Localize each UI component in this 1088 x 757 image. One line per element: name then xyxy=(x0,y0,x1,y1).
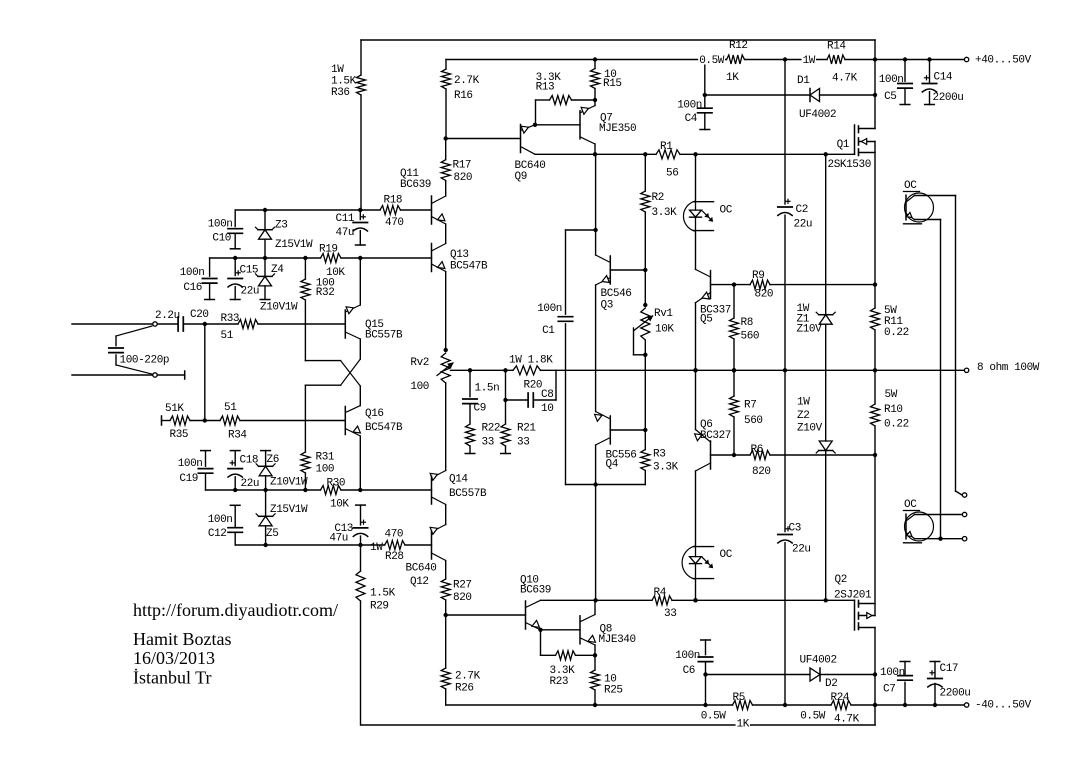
svg-text:Z2: Z2 xyxy=(797,410,809,422)
svg-text:R23: R23 xyxy=(550,676,569,688)
svg-text:470: 470 xyxy=(385,217,404,229)
svg-text:560: 560 xyxy=(741,331,760,343)
svg-text:C18: C18 xyxy=(240,455,259,467)
svg-text:Z4: Z4 xyxy=(271,264,284,276)
svg-text:R30: R30 xyxy=(327,478,346,490)
svg-text:Z6: Z6 xyxy=(267,454,279,466)
svg-text:4.7K: 4.7K xyxy=(834,714,860,726)
svg-text:1W: 1W xyxy=(331,64,344,76)
svg-text:BC557B: BC557B xyxy=(449,488,487,500)
svg-text:Z15V1W: Z15V1W xyxy=(275,239,313,251)
svg-text:C16: C16 xyxy=(183,282,202,294)
svg-text:100n: 100n xyxy=(880,667,905,679)
svg-text:Z10V: Z10V xyxy=(797,324,823,336)
svg-text:R32: R32 xyxy=(316,287,335,299)
svg-text:100n: 100n xyxy=(675,650,700,662)
svg-text:10K: 10K xyxy=(330,499,349,511)
svg-text:R2: R2 xyxy=(652,192,664,204)
svg-text:33: 33 xyxy=(482,437,494,449)
svg-text:0.5W: 0.5W xyxy=(701,711,727,723)
svg-text:OC: OC xyxy=(904,180,917,192)
svg-text:3.3K: 3.3K xyxy=(652,207,678,219)
svg-text:BC547B: BC547B xyxy=(365,422,403,434)
svg-text:BC639: BC639 xyxy=(520,585,551,597)
svg-text:1W 1.8K: 1W 1.8K xyxy=(509,355,553,367)
svg-text:C6: C6 xyxy=(683,665,695,677)
svg-text:100n: 100n xyxy=(178,458,203,470)
svg-text:3.3K: 3.3K xyxy=(653,462,679,474)
svg-text:22u: 22u xyxy=(241,286,260,298)
svg-text:R16: R16 xyxy=(454,90,473,102)
svg-text:2SK1530: 2SK1530 xyxy=(828,159,871,171)
svg-text:R14: R14 xyxy=(827,41,846,53)
svg-text:0.22: 0.22 xyxy=(884,419,909,431)
svg-text:C5: C5 xyxy=(884,91,896,103)
svg-text:BC640: BC640 xyxy=(406,563,437,575)
svg-text:R33: R33 xyxy=(221,313,240,325)
svg-text:R7: R7 xyxy=(744,400,756,412)
svg-text:MJE340: MJE340 xyxy=(599,634,636,646)
svg-text:R29: R29 xyxy=(370,601,389,613)
svg-text:BC327: BC327 xyxy=(700,430,731,442)
svg-text:R21: R21 xyxy=(517,423,536,435)
svg-text:R26: R26 xyxy=(455,683,474,695)
svg-text:R4: R4 xyxy=(654,587,667,599)
svg-text:R1: R1 xyxy=(660,141,673,153)
svg-text:470: 470 xyxy=(385,529,404,541)
svg-text:Q13: Q13 xyxy=(450,249,469,261)
svg-text:100-220p: 100-220p xyxy=(120,355,170,367)
svg-text:D2: D2 xyxy=(825,678,837,690)
svg-text:100n: 100n xyxy=(208,219,233,231)
svg-text:C1: C1 xyxy=(542,325,555,337)
svg-text:100: 100 xyxy=(410,381,429,393)
svg-text:C19: C19 xyxy=(179,473,198,485)
svg-text:2200u: 2200u xyxy=(940,688,971,700)
svg-text:100n: 100n xyxy=(677,100,702,112)
svg-text:BC639: BC639 xyxy=(400,179,431,191)
svg-text:10: 10 xyxy=(541,403,553,415)
svg-text:10K: 10K xyxy=(655,324,674,336)
svg-text:820: 820 xyxy=(752,466,771,478)
svg-text:Q1: Q1 xyxy=(837,139,850,151)
svg-text:Rv2: Rv2 xyxy=(410,357,429,369)
svg-text:0.5W: 0.5W xyxy=(699,55,725,67)
svg-text:R3: R3 xyxy=(653,449,665,461)
svg-text:R24: R24 xyxy=(831,692,850,704)
svg-text:560: 560 xyxy=(744,415,763,427)
svg-text:0.5W: 0.5W xyxy=(800,711,826,723)
svg-text:820: 820 xyxy=(755,289,774,301)
svg-text:R9: R9 xyxy=(752,270,764,282)
svg-text:22u: 22u xyxy=(794,219,813,231)
svg-text:R28: R28 xyxy=(385,551,404,563)
svg-text:Z10V1W: Z10V1W xyxy=(260,302,298,314)
svg-text:820: 820 xyxy=(453,592,472,604)
svg-text:8 ohm 100W: 8 ohm 100W xyxy=(977,362,1040,374)
svg-text:http://forum.diyaudiotr.com/: http://forum.diyaudiotr.com/ xyxy=(133,600,338,620)
svg-text:OC: OC xyxy=(720,549,733,561)
svg-text:C7: C7 xyxy=(883,684,895,696)
svg-text:16/03/2013: 16/03/2013 xyxy=(133,648,215,668)
svg-text:100n: 100n xyxy=(208,514,233,526)
svg-text:Q5: Q5 xyxy=(700,314,712,326)
svg-text:2SJ201: 2SJ201 xyxy=(834,590,872,602)
svg-text:1K: 1K xyxy=(737,719,750,731)
svg-text:-40...50V: -40...50V xyxy=(975,700,1032,712)
svg-text:51: 51 xyxy=(224,402,237,414)
svg-text:R18: R18 xyxy=(384,195,403,207)
svg-text:R17: R17 xyxy=(453,160,472,172)
svg-text:Z10V: Z10V xyxy=(797,423,823,435)
svg-text:R20: R20 xyxy=(524,380,543,392)
svg-text:Z10V1W: Z10V1W xyxy=(270,477,308,489)
svg-text:R10: R10 xyxy=(884,404,903,416)
svg-text:Z5: Z5 xyxy=(266,528,278,540)
svg-text:820: 820 xyxy=(454,172,473,184)
svg-text:R31: R31 xyxy=(316,452,335,464)
svg-text:OC: OC xyxy=(720,205,733,217)
svg-text:51: 51 xyxy=(221,330,234,342)
svg-text:BC546: BC546 xyxy=(601,288,632,300)
svg-text:Q4: Q4 xyxy=(606,459,619,471)
svg-text:R35: R35 xyxy=(170,429,189,441)
svg-text:R8: R8 xyxy=(741,317,753,329)
svg-text:Q2: Q2 xyxy=(835,574,847,586)
svg-text:OC: OC xyxy=(904,499,917,511)
svg-text:5W: 5W xyxy=(885,389,898,401)
svg-text:1.5K: 1.5K xyxy=(331,76,357,88)
svg-text:BC557B: BC557B xyxy=(365,330,403,342)
svg-text:C2: C2 xyxy=(796,204,808,216)
svg-text:2.2u: 2.2u xyxy=(155,310,180,322)
svg-text:1.5n: 1.5n xyxy=(475,383,500,395)
svg-text:22u: 22u xyxy=(792,544,811,556)
svg-text:100n: 100n xyxy=(180,267,205,279)
svg-text:1W: 1W xyxy=(370,542,383,554)
svg-text:R22: R22 xyxy=(482,423,501,435)
svg-text:100n: 100n xyxy=(879,74,904,86)
svg-text:D1: D1 xyxy=(797,75,810,87)
svg-text:UF4002: UF4002 xyxy=(799,109,836,121)
svg-text:1K: 1K xyxy=(726,72,739,84)
svg-text:33: 33 xyxy=(517,437,529,449)
svg-text:C4: C4 xyxy=(685,113,698,125)
svg-text:R36: R36 xyxy=(331,87,350,99)
svg-text:1W: 1W xyxy=(803,55,816,67)
svg-text:100n: 100n xyxy=(537,303,562,315)
svg-text:C17: C17 xyxy=(940,663,959,675)
svg-text:R27: R27 xyxy=(453,580,472,592)
svg-text:Hamit Boztas: Hamit Boztas xyxy=(133,629,231,649)
svg-text:C12: C12 xyxy=(208,528,227,540)
svg-text:C3: C3 xyxy=(789,523,801,535)
svg-text:0.22: 0.22 xyxy=(884,327,909,339)
svg-text:4.7K: 4.7K xyxy=(832,73,858,85)
svg-text:Q3: Q3 xyxy=(601,300,613,312)
svg-text:Q9: Q9 xyxy=(515,171,527,183)
svg-text:Q16: Q16 xyxy=(365,408,384,420)
svg-text:2.7K: 2.7K xyxy=(454,75,480,87)
svg-text:22u: 22u xyxy=(241,478,260,490)
svg-text:33: 33 xyxy=(664,608,676,620)
svg-text:100: 100 xyxy=(316,464,335,476)
svg-text:R13: R13 xyxy=(536,82,555,94)
svg-text:Q14: Q14 xyxy=(449,474,468,486)
svg-text:2200u: 2200u xyxy=(933,92,964,104)
svg-text:Q12: Q12 xyxy=(410,576,429,588)
svg-text:R5: R5 xyxy=(733,692,745,704)
svg-text:C14: C14 xyxy=(934,72,953,84)
svg-text:51K: 51K xyxy=(165,403,184,415)
svg-text:2.7K: 2.7K xyxy=(455,671,481,683)
svg-text:R6: R6 xyxy=(751,444,763,456)
svg-text:R19: R19 xyxy=(319,244,338,256)
svg-text:C20: C20 xyxy=(190,309,209,321)
svg-text:Z3: Z3 xyxy=(275,220,287,232)
svg-text:47u: 47u xyxy=(336,227,355,239)
svg-text:1W: 1W xyxy=(797,397,810,409)
svg-text:C10: C10 xyxy=(212,233,231,245)
svg-text:47u: 47u xyxy=(329,533,348,545)
svg-text:1.5K: 1.5K xyxy=(370,588,396,600)
svg-text:C9: C9 xyxy=(474,403,486,415)
svg-text:Rv1: Rv1 xyxy=(654,308,673,320)
svg-text:R34: R34 xyxy=(228,430,247,442)
svg-text:C8: C8 xyxy=(541,389,553,401)
svg-text:MJE350: MJE350 xyxy=(599,123,636,135)
svg-text:R12: R12 xyxy=(729,40,748,52)
svg-text:Z15V1W: Z15V1W xyxy=(270,504,308,516)
svg-text:BC547B: BC547B xyxy=(450,261,488,273)
svg-text:UF4002: UF4002 xyxy=(800,655,837,667)
svg-text:İstanbul Tr: İstanbul Tr xyxy=(133,668,212,688)
svg-text:R15: R15 xyxy=(603,78,622,90)
svg-text:C11: C11 xyxy=(336,213,355,225)
svg-text:+40...50V: +40...50V xyxy=(975,55,1032,67)
svg-text:C15: C15 xyxy=(240,265,259,277)
svg-text:R25: R25 xyxy=(604,685,623,697)
svg-text:56: 56 xyxy=(666,168,678,180)
